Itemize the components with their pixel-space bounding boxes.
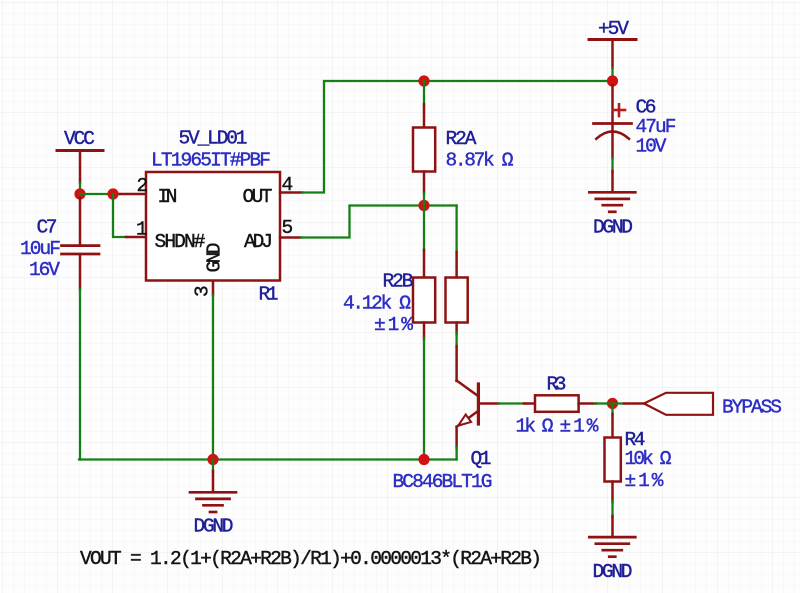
svg-text:8.87k Ω: 8.87k Ω: [446, 150, 514, 172]
node R2A bottom junction: [418, 200, 429, 211]
svg-text:5: 5: [282, 217, 294, 239]
svg-text:+5V: +5V: [598, 18, 629, 40]
svg-text:R3: R3: [547, 374, 567, 396]
pin 3 GND lead: [212, 281, 215, 460]
node ground rail / pin3 junction: [207, 454, 218, 465]
svg-text:10uF: 10uF: [20, 238, 61, 260]
ground DGND (under R4): [589, 537, 635, 583]
svg-text:VCC: VCC: [64, 128, 95, 150]
power symbol VCC: [57, 128, 103, 190]
node R3 / R4 / bypass junction: [607, 398, 618, 409]
svg-text:5V_LD01: 5V_LD01: [179, 128, 248, 150]
wire ground rail: [79, 458, 457, 460]
pin 5 ADJ lead: [280, 236, 301, 239]
svg-text:10k Ω: 10k Ω: [625, 448, 672, 470]
svg-text:IN: IN: [158, 186, 178, 208]
power symbol +5V: [589, 18, 636, 77]
wire ADJ feedback: [301, 206, 457, 238]
svg-text:1k Ω: 1k Ω: [516, 416, 554, 438]
ground DGND (under C6): [589, 192, 635, 238]
svg-text:ADJ: ADJ: [244, 231, 273, 253]
svg-text:2: 2: [137, 175, 149, 197]
wire junction to port: [607, 402, 644, 404]
node R2A top junction: [418, 75, 429, 86]
svg-text:SHDN#: SHDN#: [155, 231, 206, 253]
node ground rail / R2B junction: [418, 454, 429, 465]
wire VCC to pin2: [80, 193, 120, 195]
svg-text:±1%: ±1%: [625, 470, 664, 492]
resistor R2B (right body): [343, 206, 468, 382]
svg-text:16V: 16V: [29, 259, 60, 281]
svg-text:LT1965IT#PBF: LT1965IT#PBF: [151, 150, 271, 172]
capacitor C6: [594, 85, 677, 192]
wire base lead: [480, 402, 535, 405]
transistor Q1: [393, 381, 493, 494]
svg-text:±1%: ±1%: [374, 314, 413, 336]
ground DGND (mid): [190, 460, 236, 538]
capacitor C7: [20, 198, 99, 289]
svg-text:GND: GND: [204, 243, 226, 273]
wire OUT up to +5V rail: [302, 81, 613, 193]
op-amp U1 LT1965 regulator body: [146, 128, 280, 306]
node VCC junction A: [74, 188, 85, 199]
svg-text:4.12k Ω: 4.12k Ω: [343, 293, 411, 315]
wire pin2 lead: [120, 193, 146, 196]
node +5V rail junction: [607, 75, 618, 86]
port BYPASS: [644, 393, 782, 419]
resistor R2A: [413, 81, 514, 206]
svg-text:R1: R1: [259, 284, 279, 306]
svg-text:DGND: DGND: [593, 561, 633, 583]
svg-text:R2B: R2B: [383, 271, 414, 293]
resistor R3: [516, 374, 608, 438]
svg-text:3: 3: [192, 285, 214, 297]
svg-text:Q1: Q1: [471, 448, 492, 470]
svg-text:C7: C7: [37, 217, 58, 239]
svg-text:DGND: DGND: [194, 516, 234, 538]
resistor R4: [605, 404, 672, 538]
svg-text:1: 1: [136, 219, 148, 241]
svg-text:OUT: OUT: [243, 186, 273, 208]
svg-text:BC846BLT1G: BC846BLT1G: [393, 471, 493, 493]
node junction B: [107, 188, 118, 199]
pin 4 OUT lead: [280, 191, 302, 194]
resistor R2B (left body): [413, 206, 435, 460]
wire C7 down to ground rail: [79, 289, 81, 460]
wire SHDN drop: [113, 194, 146, 237]
svg-text:10V: 10V: [636, 136, 667, 158]
svg-text:VOUT = 1.2(1+(R2A+R2B)/R1)+0.0: VOUT = 1.2(1+(R2A+R2B)/R1)+0.0000013*(R2…: [80, 548, 542, 570]
svg-text:DGND: DGND: [593, 217, 633, 239]
svg-text:BYPASS: BYPASS: [722, 397, 782, 419]
svg-text:±1%: ±1%: [560, 416, 599, 438]
svg-text:R2A: R2A: [446, 128, 477, 150]
